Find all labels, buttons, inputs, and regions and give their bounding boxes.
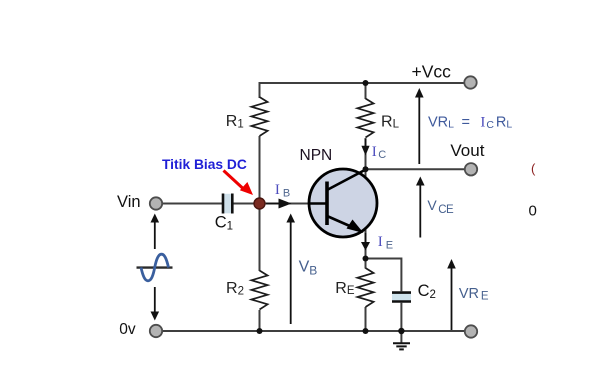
arrow VB: [286, 214, 295, 325]
svg-text:C2: C2: [418, 282, 436, 301]
arrow VRE: [447, 259, 456, 330]
junction C2 bottom: [398, 328, 404, 334]
svg-text:IE: IE: [378, 234, 393, 252]
wire top rail: [260, 82, 465, 84]
wire C2 branch: [366, 259, 402, 343]
wire left vertical upper (R1 branch): [259, 82, 261, 203]
wire collector vertical: [365, 82, 367, 178]
svg-text:IB: IB: [275, 182, 290, 199]
capacitor C1: [223, 194, 232, 214]
svg-text:Titik Bias DC: Titik Bias DC: [162, 157, 247, 172]
junction top (RL/top rail): [363, 80, 369, 86]
resistor RL: [357, 99, 373, 138]
capacitor C2: [392, 293, 411, 302]
svg-text:0: 0: [529, 203, 537, 220]
svg-text:+Vcc: +Vcc: [412, 61, 452, 81]
transistor Q1 NPN: [309, 169, 377, 237]
terminal Vout: [465, 163, 477, 175]
terminal Vin: [150, 197, 162, 209]
terminal bottom-right: [465, 325, 477, 337]
wire emitter vertical: [365, 228, 367, 331]
resistor R2: [251, 271, 267, 310]
arrow VRL: [415, 88, 424, 164]
svg-text:VRE: VRE: [459, 286, 489, 303]
resistor RE: [357, 268, 373, 307]
junction RE bottom: [363, 328, 369, 334]
arrow IE: [361, 233, 370, 251]
svg-text:VB: VB: [299, 259, 318, 278]
wire base (Vin to transistor): [162, 203, 309, 205]
arrow Vin-up: [151, 214, 160, 250]
svg-text:NPN: NPN: [300, 147, 333, 164]
svg-text:VCE: VCE: [427, 197, 454, 216]
annotation arrow (red, Titik Bias DC): [224, 171, 254, 196]
svg-text:RE: RE: [335, 280, 355, 297]
svg-text:(: (: [531, 161, 536, 176]
svg-text:Vin: Vin: [117, 193, 141, 211]
svg-text:C1: C1: [215, 214, 233, 233]
node bias point: [254, 198, 265, 209]
svg-text:Vout: Vout: [450, 141, 484, 160]
resistor R1: [251, 97, 267, 136]
arrow IC: [361, 139, 369, 156]
arrow VCE: [416, 177, 425, 238]
svg-text:R1: R1: [226, 113, 244, 131]
svg-text:VRL=ICRL: VRL=ICRL: [428, 114, 512, 131]
junction collector node: [363, 166, 369, 172]
terminal 0v: [150, 325, 162, 337]
arrow Vin-down: [151, 287, 160, 321]
svg-text:0v: 0v: [119, 321, 136, 338]
svg-text:R2: R2: [226, 280, 244, 298]
terminal Vcc: [464, 76, 476, 88]
arrow IB: [266, 199, 292, 209]
svg-text:IC: IC: [372, 144, 387, 161]
ground: [393, 343, 410, 349]
svg-text:RL: RL: [381, 113, 400, 130]
wire Vout: [366, 168, 466, 170]
sine source symbol: [137, 254, 173, 281]
wire bottom rail: [162, 330, 465, 332]
junction R2 bottom: [257, 328, 263, 334]
wire left vertical lower (R2 branch): [259, 204, 261, 331]
junction emitter node: [363, 256, 369, 262]
